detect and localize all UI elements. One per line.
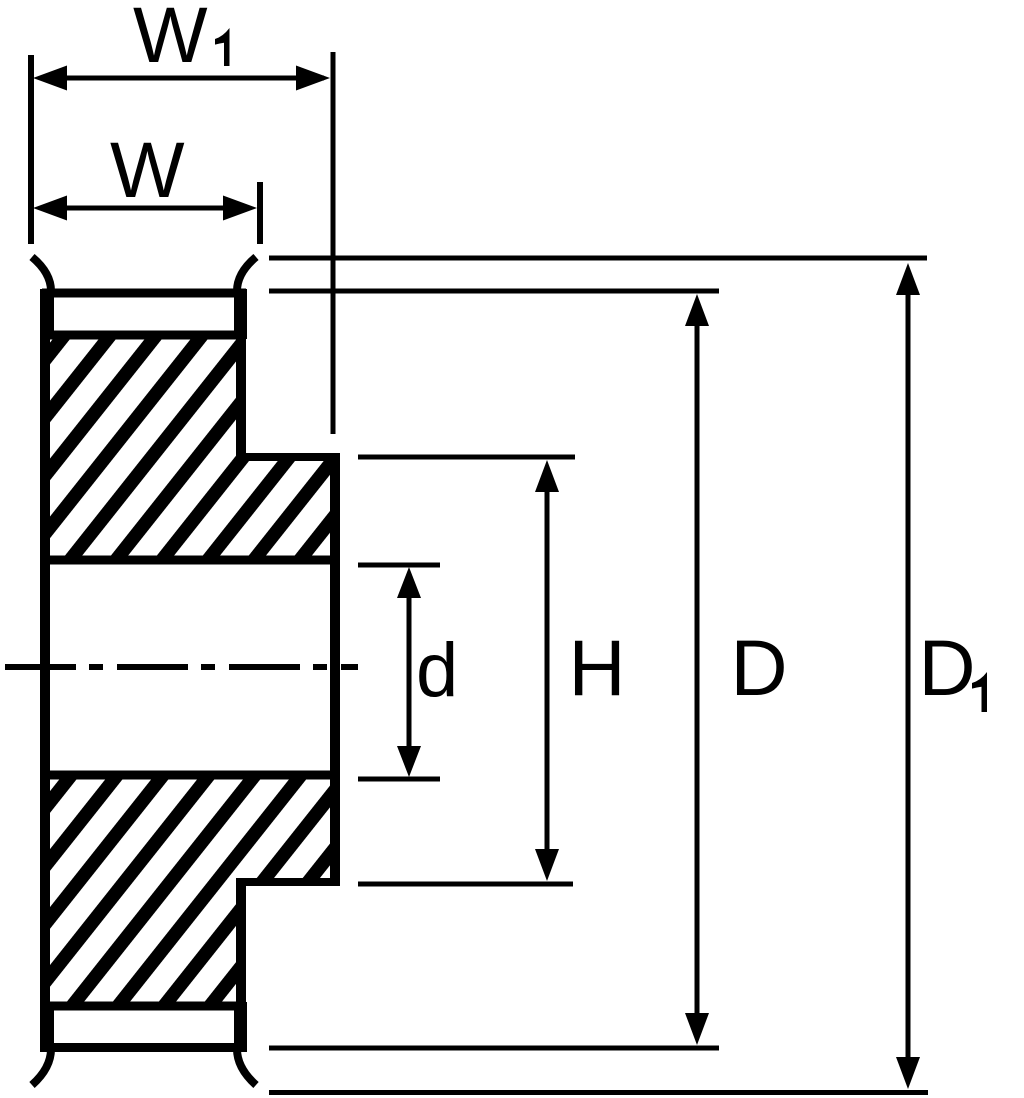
arrowhead W left <box>33 196 67 221</box>
arrowhead H up <box>535 460 559 492</box>
svg-text:W: W <box>133 0 208 79</box>
hatched section lower (pulley body cross-section, bottom half) <box>45 775 335 1006</box>
svg-text:H: H <box>569 623 626 712</box>
dimension line W <box>40 206 250 211</box>
flange fillet top-right <box>237 257 256 291</box>
hub right edge <box>330 453 340 886</box>
hatched section upper (pulley body cross-section, top half) <box>45 335 335 561</box>
extension line left (W/W1 datum) <box>28 55 34 244</box>
arrowhead H down <box>535 849 559 881</box>
dimension line d <box>407 595 412 749</box>
extension line D bottom <box>269 1046 719 1051</box>
extension line D1 top <box>269 256 927 261</box>
arrowhead D1 up <box>896 263 920 295</box>
extension line right of W1 <box>331 52 336 434</box>
arrowhead D down <box>685 1013 709 1045</box>
extension line H top <box>358 455 575 460</box>
extension line d top <box>358 563 440 568</box>
bore top line <box>41 556 340 565</box>
arrowhead W1 left <box>33 66 67 91</box>
flange bottom outer line <box>42 1043 246 1052</box>
extension line d bottom <box>358 777 440 782</box>
flange band left wall top <box>40 289 54 339</box>
flange band left wall bottom <box>40 1002 54 1052</box>
svg-text:W: W <box>110 125 185 214</box>
bore bottom line <box>41 771 340 780</box>
flange fillet bottom-right <box>237 1049 256 1085</box>
arrowhead D up <box>685 294 709 326</box>
flange top outer line <box>42 289 246 298</box>
hub step bottom edge <box>236 878 340 886</box>
hub step top edge <box>236 453 340 461</box>
flange band right wall bottom <box>234 1002 247 1052</box>
extension line H bottom <box>358 882 573 887</box>
extension line D top <box>269 289 719 294</box>
svg-text:D: D <box>919 623 976 712</box>
arrowhead d down <box>397 746 421 777</box>
dimension line H <box>545 488 550 852</box>
left outer edge <box>40 289 50 1052</box>
flange band bottom line / hatch top <box>41 331 246 340</box>
centerline (axis, dash-dot) <box>5 664 358 670</box>
extension tick for W <box>257 182 263 244</box>
extension line D1 bottom <box>269 1090 928 1095</box>
dimension line D1 <box>906 292 911 1060</box>
flange fillet bottom-left <box>32 1049 51 1085</box>
dimension line W1 <box>40 76 324 81</box>
flange fillet top-left <box>32 257 51 291</box>
svg-text:d: d <box>416 628 458 713</box>
flange band right wall top <box>234 289 247 339</box>
arrowhead D1 down <box>896 1057 920 1089</box>
right edge lower body <box>236 878 246 1052</box>
svg-text:D: D <box>731 623 788 712</box>
dimension line D <box>695 324 700 1017</box>
arrowhead d up <box>397 567 421 598</box>
lower hatch bottom line <box>41 1002 246 1011</box>
right edge upper body <box>236 289 246 461</box>
arrowhead W right <box>223 196 257 221</box>
arrowhead W1 right <box>296 66 330 91</box>
